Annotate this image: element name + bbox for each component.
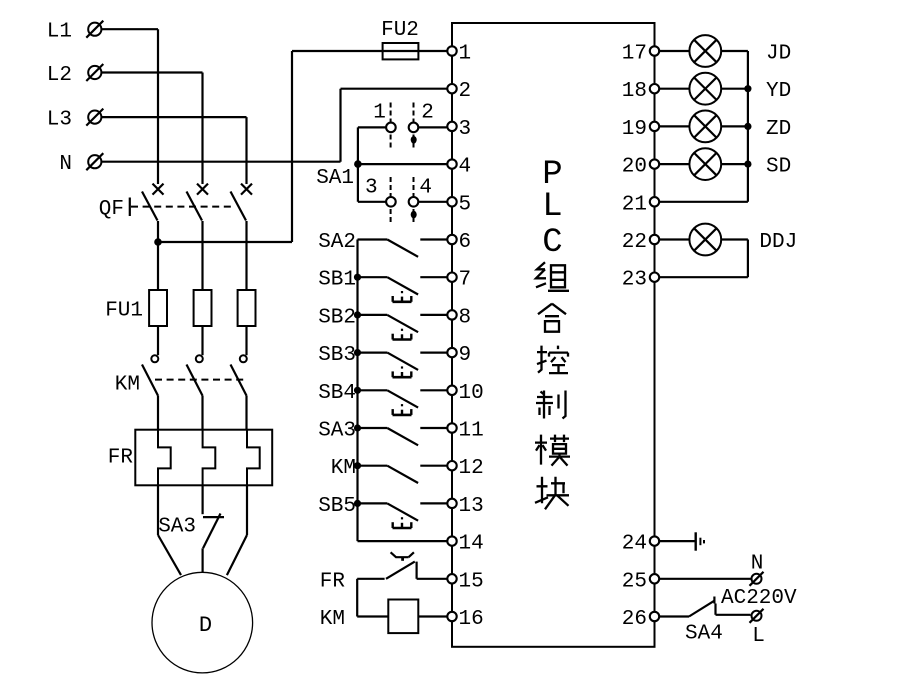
svg-text:KM: KM [115,374,140,397]
svg-text:1: 1 [459,43,472,66]
svg-text:2: 2 [459,80,472,103]
svg-text:10: 10 [459,382,484,405]
svg-text:L: L [542,188,562,226]
svg-text:6: 6 [459,231,472,254]
svg-text:20: 20 [622,156,647,179]
svg-text:SA3: SA3 [158,516,196,539]
svg-text:12: 12 [459,457,484,480]
svg-text:SA1: SA1 [316,167,354,190]
svg-text:5: 5 [459,193,472,216]
svg-text:FR: FR [320,570,346,593]
svg-text:22: 22 [622,231,647,254]
svg-text:SD: SD [766,156,791,179]
svg-text:JD: JD [766,43,791,66]
svg-text:SB1: SB1 [318,269,356,292]
svg-text:9: 9 [459,344,472,367]
svg-text:15: 15 [459,570,484,593]
svg-text:25: 25 [622,570,647,593]
svg-text:23: 23 [622,269,647,292]
svg-text:N: N [751,553,764,576]
svg-text:17: 17 [622,43,647,66]
svg-text:14: 14 [459,533,484,556]
svg-text:KM: KM [331,457,356,480]
svg-text:3: 3 [365,177,378,200]
svg-text:11: 11 [459,420,484,443]
svg-text:FU2: FU2 [381,19,419,42]
svg-text:L3: L3 [47,109,72,132]
svg-text:AC220V: AC220V [721,587,797,610]
svg-text:18: 18 [622,80,647,103]
svg-text:21: 21 [622,193,647,216]
svg-text:4: 4 [459,156,472,179]
svg-text:26: 26 [622,608,647,631]
svg-text:3: 3 [459,118,472,141]
svg-text:SA2: SA2 [318,231,356,254]
svg-text:SB4: SB4 [318,382,356,405]
svg-text:DDJ: DDJ [759,231,797,254]
svg-text:SA4: SA4 [685,623,723,646]
svg-text:8: 8 [459,306,472,329]
svg-text:SB3: SB3 [318,344,356,367]
svg-text:N: N [59,153,72,176]
svg-text:19: 19 [622,118,647,141]
svg-text:7: 7 [459,269,472,292]
svg-text:SA3: SA3 [318,420,356,443]
svg-text:SB5: SB5 [318,495,356,518]
svg-text:L1: L1 [47,21,72,44]
svg-text:QF: QF [99,198,124,221]
svg-text:24: 24 [622,533,647,556]
svg-text:KM: KM [320,608,345,631]
svg-text:2: 2 [421,102,434,125]
svg-text:FR: FR [108,447,134,470]
svg-text:16: 16 [459,608,484,631]
svg-text:L2: L2 [47,64,72,87]
svg-text:YD: YD [766,80,791,103]
svg-text:D: D [199,613,212,638]
svg-text:4: 4 [419,177,432,200]
svg-text:C: C [542,224,562,262]
svg-text:L: L [752,625,765,648]
svg-text:SB2: SB2 [318,306,356,329]
svg-text:FU1: FU1 [105,300,143,323]
svg-text:ZD: ZD [766,118,791,141]
svg-text:1: 1 [373,102,386,125]
svg-text:13: 13 [459,495,484,518]
